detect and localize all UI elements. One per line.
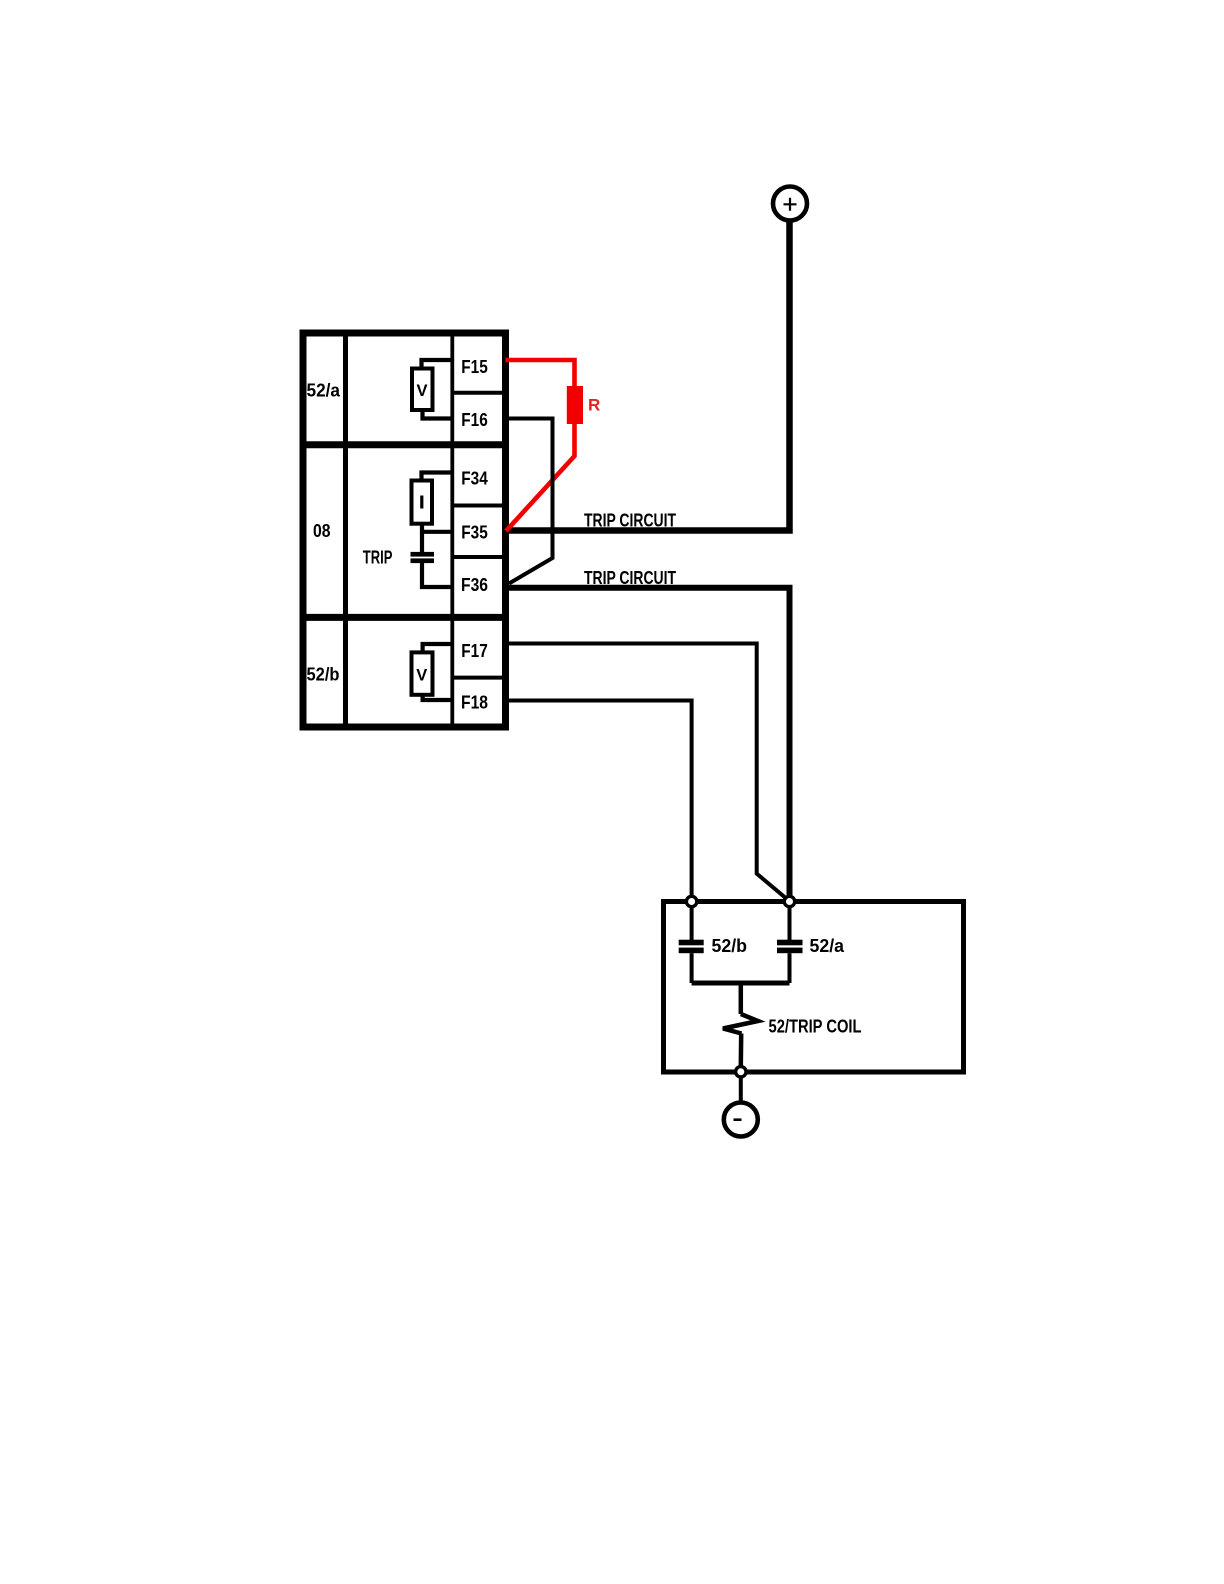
svg-text:R: R [588, 396, 600, 415]
contact 52/b lower lead [690, 953, 694, 983]
terminal divider F17/F18 [452, 676, 505, 680]
svg-text:52/TRIP COIL: 52/TRIP COIL [769, 1017, 862, 1037]
svg-text:F17: F17 [461, 641, 488, 661]
contact 52/a lower lead [788, 953, 792, 983]
svg-text:V: V [416, 382, 427, 400]
divider 52/a / 08 sections [303, 441, 506, 448]
voltage element V (52/b section) [412, 652, 433, 694]
wire F18 to 52/b contact node [507, 701, 692, 899]
divider terminal column [450, 333, 454, 727]
red wire F15 to resistor R [506, 360, 575, 388]
svg-text:TRIP CIRCUIT: TRIP CIRCUIT [584, 511, 676, 531]
resistor R (red) [567, 386, 583, 424]
current element I (08 section) [412, 481, 433, 524]
wire trip circuit 2: from F36 down to 52/a contact node [508, 588, 790, 898]
divider 08 / 52/b sections [303, 614, 506, 621]
voltage element V (52/a section) [412, 369, 433, 411]
svg-text:F36: F36 [461, 575, 488, 595]
svg-text:F16: F16 [461, 410, 488, 430]
terminal divider F34/F35 [452, 504, 505, 508]
svg-text:F15: F15 [461, 357, 488, 377]
svg-text:52/b: 52/b [307, 665, 340, 685]
svg-text:52/a: 52/a [810, 936, 845, 956]
voltage element V wire to F18 [423, 696, 453, 700]
terminal divider F35/F36 [452, 555, 505, 559]
coil 52/TRIP COIL zigzag [723, 1014, 758, 1034]
svg-text:TRIP: TRIP [363, 548, 393, 568]
contact 52/a lead from node [788, 904, 792, 940]
wire I element to F35 tee [422, 525, 452, 532]
svg-text:F18: F18 [461, 693, 488, 713]
terminal + (positive battery terminal) [773, 187, 807, 221]
wire trip circuit 1: from F35 to + terminal [506, 221, 790, 531]
voltage element V (52/a section) wire to F15 [422, 360, 453, 367]
node coil bottom junction [736, 1067, 746, 1077]
node 52/b contact junction [686, 896, 696, 906]
terminal - (negative battery terminal) [724, 1103, 758, 1137]
svg-text:F34: F34 [461, 469, 488, 489]
coil 52/TRIP COIL lead [739, 983, 744, 1014]
svg-text:08: 08 [313, 521, 331, 541]
capacitor plates (TRIP element) [411, 552, 435, 557]
svg-text:V: V [416, 666, 427, 684]
current element I (08 section) wire to F34 [422, 473, 453, 480]
wire to - terminal [739, 1077, 743, 1102]
wire F17 to 52/a contact node [507, 644, 788, 900]
contact 52/a plates [777, 940, 803, 946]
wire F16 to F36 (jumper) [507, 419, 553, 584]
wire connector bus between contacts [692, 981, 790, 986]
voltage element V wire to F16 [423, 412, 453, 419]
terminal divider F15/F16 [452, 391, 505, 395]
node 52/a contact junction [784, 896, 794, 906]
svg-text:52/b: 52/b [712, 936, 748, 956]
wire tee down to capacitor [420, 532, 424, 553]
contact 52/b lead from node [690, 904, 694, 940]
divider between label column and component area [343, 333, 348, 727]
svg-text:52/a: 52/a [307, 381, 341, 401]
red wire resistor R to F35 [506, 422, 575, 531]
wire capacitor to F36 [422, 563, 452, 587]
contact 52/b plates [679, 940, 704, 946]
main relay block outline [303, 333, 506, 727]
breaker box outline [664, 902, 964, 1073]
voltage element V (52/b section) wire to F17 [423, 644, 453, 652]
svg-text:F35: F35 [461, 523, 488, 543]
svg-text:TRIP CIRCUIT: TRIP CIRCUIT [584, 568, 676, 588]
coil lower lead [739, 1034, 744, 1067]
